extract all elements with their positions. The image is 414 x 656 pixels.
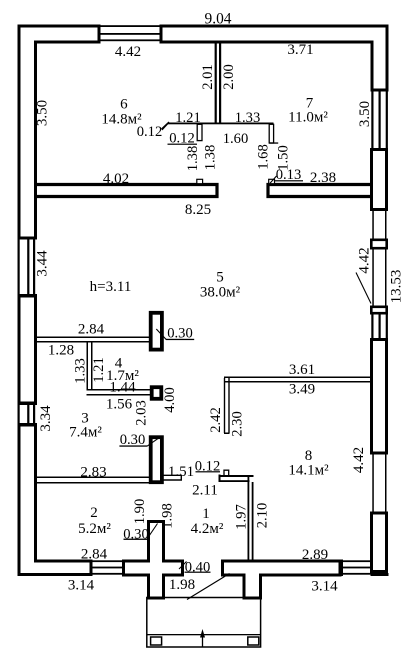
room 5 number (216, 269, 224, 285)
exterior wall left, outer line upper segment (18, 25, 21, 237)
exterior wall top, outer line right of window (160, 25, 389, 28)
svg-text:8.25: 8.25 (185, 202, 211, 218)
tee pier at entrance (right) (221, 560, 342, 600)
right wall pier P3 (370, 338, 388, 455)
dim 1.98 room 1 left (159, 503, 175, 529)
svg-text:1.33: 1.33 (72, 358, 88, 384)
svg-text:1.21: 1.21 (91, 357, 107, 383)
room 5 area 38.0 (200, 284, 241, 300)
room 4 bottom wall (87, 389, 151, 396)
svg-text:1.98: 1.98 (169, 577, 195, 593)
dim 1.38 flue b (202, 145, 218, 171)
dim 3.44 left wall (34, 250, 50, 277)
exterior wall left, inner line lower segment (34, 427, 37, 563)
svg-text:9.04: 9.04 (205, 11, 232, 28)
svg-text:1: 1 (202, 506, 210, 522)
svg-text:1.38: 1.38 (185, 146, 201, 172)
svg-text:4.02: 4.02 (103, 171, 129, 187)
exterior wall top, outer line left of window (18, 25, 101, 28)
room 3 area 7.4 (69, 424, 102, 440)
dim 2.42 room 8 (208, 407, 224, 433)
tick mark at flue line left end (162, 122, 170, 129)
room 4 number (115, 355, 123, 371)
svg-text:4.2м²: 4.2м² (191, 521, 224, 537)
window W1 in top wall, left jamb cap (98, 25, 101, 44)
exterior wall right, outer line top segment (386, 25, 389, 92)
tick for 0.12 label a (162, 123, 169, 130)
wall A left (rooms 6/5 divider) (37, 185, 217, 197)
svg-text:2.89: 2.89 (302, 547, 328, 563)
room 3 number (81, 410, 89, 426)
dim 2.30 room 8 (229, 411, 245, 437)
door leaf D2 at room 1 entrance (151, 437, 162, 482)
wall D top line (219, 475, 254, 477)
svg-text:1.97: 1.97 (233, 504, 249, 530)
window W1 glazing lines (101, 25, 160, 41)
svg-text:1.50: 1.50 (275, 145, 291, 171)
dim 3.49 wall F (289, 381, 315, 397)
flue right jamb foot line (269, 142, 278, 143)
dim 1.68 flue (255, 144, 271, 170)
svg-text:1.60: 1.60 (223, 131, 249, 147)
svg-text:3.61: 3.61 (289, 362, 315, 378)
dim 1.33 room 4 (72, 358, 88, 384)
exterior wall right, inner line top segment (371, 41, 374, 92)
exterior wall left, outer line middle segment (18, 297, 21, 402)
dim 1.90 room 2 (132, 499, 148, 525)
dim 2.84 wall B (78, 321, 105, 337)
dim 3.50 right wall (357, 101, 373, 127)
exterior wall bottom, outer line right corner segment (371, 573, 389, 576)
svg-text:3.34: 3.34 (38, 405, 54, 432)
dim 1.51 room 1 door (168, 464, 194, 480)
flue recess right jamb (269, 124, 273, 143)
svg-text:38.0м²: 38.0м² (200, 284, 241, 300)
room 7 number (306, 95, 314, 111)
cross pier at entrance (left) (122, 520, 184, 600)
window W2 in left wall, bottom cap (18, 294, 38, 298)
dim 3.34 left wall (38, 405, 54, 432)
svg-text:2: 2 (90, 505, 98, 521)
svg-text:2.42: 2.42 (208, 407, 224, 433)
dim 2.03 room 4 (133, 400, 149, 426)
svg-text:5: 5 (216, 269, 224, 285)
underline of 0.12 label b (168, 144, 198, 145)
dim 2.00 partition (221, 64, 237, 90)
porch outline (147, 598, 261, 648)
wall G bottom cap (224, 433, 230, 435)
dim 0.30 b (120, 432, 146, 448)
dim 4.02 room 6 (103, 171, 129, 187)
right wall thin segment S3 (372, 455, 386, 512)
svg-text:2.38: 2.38 (310, 170, 336, 186)
svg-text:3.14: 3.14 (311, 578, 338, 594)
right wall pier P1 (370, 148, 388, 211)
wall F (rooms 5/8 divider, 3.61/3.49) (224, 377, 371, 383)
dim 2.38 room 7 (310, 170, 336, 186)
dim 1.21 flue (175, 110, 201, 126)
window W4 glazing lines (93, 560, 123, 574)
window W7 glazing lines (371, 315, 388, 339)
svg-text:2.84: 2.84 (78, 321, 105, 337)
svg-text:14.1м²: 14.1м² (288, 462, 329, 478)
room 4 area 1.7 (106, 368, 139, 384)
dim 3.50 left wall (34, 100, 50, 126)
svg-text:3.71: 3.71 (287, 42, 313, 58)
window W3 in left wall, bottom cap (18, 423, 38, 427)
svg-text:3.44: 3.44 (34, 250, 50, 277)
svg-text:2.00: 2.00 (221, 64, 237, 90)
svg-text:2.84: 2.84 (81, 546, 108, 562)
window W5 glazing lines (343, 560, 371, 574)
room 2 area 5.2 (78, 521, 111, 537)
svg-text:7.4м²: 7.4м² (69, 424, 102, 440)
svg-text:3.14: 3.14 (68, 577, 95, 593)
room 4 left wall (87, 343, 93, 390)
window W3 in left wall, top cap (18, 402, 38, 406)
svg-text:1.56: 1.56 (106, 396, 133, 412)
svg-text:13.53: 13.53 (388, 270, 404, 304)
room 6 area 14.8 (101, 111, 142, 127)
svg-text:1.51: 1.51 (168, 464, 194, 480)
cross pier white interior (125, 523, 181, 597)
dim 4.42 right wall upper (356, 247, 372, 273)
dim 3.61 wall F (289, 362, 315, 378)
room 6 number (120, 96, 128, 112)
dim 2.01 partition (200, 64, 216, 90)
dim 1.98 entrance (169, 577, 195, 593)
svg-text:0.12: 0.12 (137, 124, 163, 140)
tee pier white interior (224, 563, 339, 597)
room 8 area 14.1 (288, 462, 329, 478)
ceiling height h=3.11 (90, 279, 132, 295)
dim 0.30 a (167, 325, 193, 341)
dim 0.13 room 7 (276, 167, 302, 183)
exterior wall left, inner line middle segment (34, 297, 37, 402)
dim 4.42 top window (115, 44, 141, 60)
dim 3.14 bottom right (311, 578, 338, 594)
entrance door swing line (187, 574, 230, 600)
room 8 number (305, 448, 313, 464)
window W2 glazing lines (18, 240, 36, 295)
svg-text:4.42: 4.42 (351, 447, 367, 473)
wall D (room 1 top, 2.11) left cap (219, 475, 221, 483)
window W2 in left wall, top cap (18, 237, 38, 240)
svg-text:1.68: 1.68 (255, 144, 271, 170)
dim 3.71 room 7 (287, 42, 313, 58)
svg-text:4.00: 4.00 (162, 387, 178, 413)
svg-text:1.98: 1.98 (159, 503, 175, 529)
porch column right (248, 637, 259, 645)
svg-text:1.44: 1.44 (109, 379, 136, 395)
dim 0.30 c (123, 526, 149, 542)
exterior wall top, inner line left of window (34, 41, 101, 44)
dim 4.42 room 8 (351, 447, 367, 473)
room 1 area 4.2 (191, 521, 224, 537)
dim 8.25 room 5 (185, 202, 211, 218)
square pier at room 4 corner (152, 387, 162, 399)
exterior wall bottom, outer line left segment (18, 573, 93, 576)
svg-text:0.30: 0.30 (120, 432, 146, 448)
dim 1.28 room 3 (48, 342, 74, 358)
dim 1.60 flue (223, 131, 249, 147)
flue recess left jamb (197, 124, 202, 140)
wall stub right of door D2 (1.51) (163, 475, 181, 480)
tick and underline of 0.13 (270, 176, 303, 183)
underline and tick of 0.40 (179, 562, 211, 573)
wall C (rooms 3/2 divider, 2.83) (37, 477, 149, 484)
stub on wall A right (269, 179, 275, 183)
window W5 in bottom wall, left cap (340, 560, 343, 577)
room 1 number (202, 506, 210, 522)
underline and tick of 0.30 b (119, 438, 158, 446)
dim 1.56 room 4 (106, 396, 133, 412)
door leaf D1 at room 3 entrance (151, 313, 162, 350)
exterior wall left, inner line upper segment (34, 41, 37, 237)
window W3 glazing lines (18, 405, 36, 423)
entrance arrow (200, 629, 205, 647)
exterior wall bottom, inner line left segment (34, 560, 90, 563)
exterior wall left, outer line lower segment (18, 427, 21, 577)
wall A right (room 7/5 divider) (268, 185, 371, 197)
room 2 number (90, 505, 98, 521)
dim 1.44 room 4 (109, 379, 136, 395)
window W1 in top wall, right jamb cap (160, 25, 163, 44)
svg-text:0.30: 0.30 (123, 526, 149, 542)
svg-text:2.03: 2.03 (133, 400, 149, 426)
dim 9.04 top (205, 11, 232, 28)
exterior wall top, inner line right of window (160, 41, 373, 44)
wall E (room 1 right side) (248, 477, 254, 560)
svg-text:2.10: 2.10 (254, 503, 270, 529)
flue recess top line (168, 123, 274, 125)
dim 13.53 right outside (388, 270, 404, 304)
svg-text:0.12: 0.12 (195, 458, 221, 474)
underline and tick of 0.30 c (124, 524, 158, 540)
window W6 in right wall, top cap (371, 89, 389, 92)
svg-text:2.83: 2.83 (80, 464, 106, 480)
svg-text:2.11: 2.11 (192, 482, 218, 498)
svg-text:0.12: 0.12 (169, 130, 195, 146)
dim 2.84 bottom (81, 546, 108, 562)
svg-text:0.40: 0.40 (185, 559, 211, 575)
dim 1.38 flue a (185, 146, 201, 172)
porch step line (147, 634, 261, 635)
right wall thin segment S1 (372, 211, 386, 239)
underline and tick of 0.30 a (156, 329, 194, 340)
dim 2.10 room 8 side (254, 503, 270, 529)
svg-text:3.50: 3.50 (34, 100, 50, 126)
svg-text:11.0м²: 11.0м² (288, 109, 328, 125)
svg-text:1.38: 1.38 (202, 145, 218, 171)
leader line for 4.42 (right wall) (356, 273, 371, 304)
window W6 glazing lines (371, 92, 388, 149)
room 7 area 11.0 (288, 109, 328, 125)
dim 2.83 wall C (80, 464, 106, 480)
dim 1.97 room 1 right (233, 504, 249, 530)
bump stub on wall D (224, 470, 229, 475)
dim 4.00 room 5 (162, 387, 178, 413)
wall D bottom line (219, 480, 250, 482)
dim 0.12 b (169, 130, 195, 146)
porch column left (151, 637, 162, 645)
dim 2.11 room 1 (192, 482, 218, 498)
window W4 in bottom wall, left cap (90, 560, 93, 577)
dim 1.50 flue (275, 145, 291, 171)
wall B (room 3 top, 2.84) (37, 337, 150, 343)
partition between rooms 6 and 7 (215, 44, 222, 124)
dim 1.21 room 4 (91, 357, 107, 383)
svg-text:1.21: 1.21 (175, 110, 201, 126)
svg-text:0.30: 0.30 (167, 325, 193, 341)
svg-text:2.01: 2.01 (200, 64, 216, 90)
wall G (room 8 left, 2.42/2.30) (224, 378, 230, 433)
right wall pier P4 (370, 512, 388, 574)
svg-text:4.42: 4.42 (115, 44, 141, 60)
svg-text:3.50: 3.50 (357, 101, 373, 127)
dim 0.12 c (195, 458, 221, 474)
right wall pier P2 (370, 239, 388, 250)
right wall cap block above window W7 (370, 306, 388, 315)
svg-text:3.49: 3.49 (289, 381, 315, 397)
dim 0.40 entrance (185, 559, 211, 575)
dim 1.33 flue (235, 110, 261, 126)
svg-text:h=3.11: h=3.11 (90, 279, 132, 295)
dim 0.12 a (137, 124, 163, 140)
right wall thin segment S2 (372, 250, 386, 306)
svg-text:1.28: 1.28 (48, 342, 74, 358)
dim 2.89 bottom (302, 547, 328, 563)
svg-text:5.2м²: 5.2м² (78, 521, 111, 537)
dim 3.14 bottom left (68, 577, 95, 593)
svg-text:6: 6 (120, 96, 128, 112)
svg-text:4.42: 4.42 (356, 247, 372, 273)
underline of 0.12 label c (196, 471, 221, 472)
stub on wall A left (197, 179, 203, 183)
svg-text:2.30: 2.30 (229, 411, 245, 437)
svg-text:1.33: 1.33 (235, 110, 261, 126)
svg-text:1.90: 1.90 (132, 499, 148, 525)
